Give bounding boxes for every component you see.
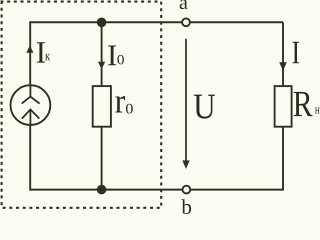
label r0 main r [115,96,125,112]
wire middle branch lower [101,127,103,190]
current arrow I (down) [279,62,287,71]
voltage arrow U head (down) [182,160,189,169]
label r0 subscript 0 [126,104,133,114]
label I main [292,42,299,64]
label Rn main R [294,92,313,116]
wire left branch lower [29,125,31,191]
resistor r0 [93,86,111,127]
label I0 subscript 0 [117,55,124,64]
wire left branch upper [29,21,31,85]
label Ik main I [37,42,45,62]
current source upper chevron [22,97,40,104]
current arrow Ik (up) [26,46,33,53]
label a [180,0,188,9]
label I0 main I [108,46,116,66]
terminal a [182,18,190,26]
resistor Rn [275,86,292,127]
wire bottom horizontal [30,189,283,191]
label Rn subscript n [315,108,319,114]
wire top horizontal [30,21,283,23]
wire middle branch upper [101,22,103,86]
current source U1 circle [11,85,51,125]
junction dot bottom [97,185,107,195]
wire right branch upper [282,22,284,86]
label U [194,95,215,119]
label b [181,199,191,214]
dashed source boundary box [2,2,162,208]
terminal b [183,186,191,194]
label Ik subscript k [45,54,50,60]
current arrow I0 (down) [98,62,105,69]
junction dot top [97,18,107,28]
current source lower chevron [22,109,39,118]
current source upper stem [29,86,31,97]
wire right branch lower [282,127,284,191]
voltage arrow U line [185,39,187,162]
current source lower stem [29,109,31,125]
